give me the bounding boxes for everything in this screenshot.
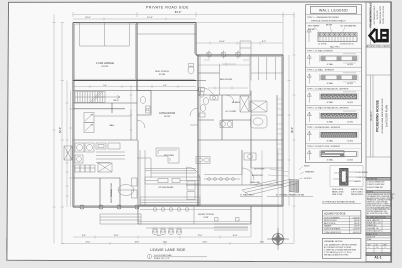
dimension line outermost left xyxy=(53,14,56,243)
toilet fixture mud room xyxy=(188,64,194,75)
svg-text:GENERAL NOTES: GENERAL NOTES xyxy=(324,240,343,243)
svg-text:16R UP: 16R UP xyxy=(113,100,120,102)
drawing title circle xyxy=(147,254,151,258)
exterior wall right xyxy=(282,55,284,206)
svg-text:38'-0": 38'-0" xyxy=(291,127,294,133)
svg-text:BKFST ROOM: BKFST ROOM xyxy=(111,189,113,203)
title strip xyxy=(366,2,395,262)
window symbol wing 1 xyxy=(207,51,212,59)
exterior wall left xyxy=(72,23,74,207)
svg-text:CHECKED: T.M.: CHECKED: T.M. xyxy=(367,228,379,230)
svg-text:NOTES: NOTES xyxy=(367,192,374,194)
svg-text:31'X8': 31'X8' xyxy=(203,217,209,219)
bath2 fixtures right xyxy=(242,153,256,180)
garage door split xyxy=(104,23,106,46)
svg-text:12. TYP. WALL FRAMING DETAIL: 12. TYP. WALL FRAMING DETAIL xyxy=(276,193,305,196)
svg-text:GARAGE: GARAGE xyxy=(324,225,332,228)
north arrow xyxy=(267,228,289,250)
garage right wall xyxy=(136,23,138,91)
iso detail caption xyxy=(267,193,313,196)
svg-text:WRITTEN DIMENSIONS ONLY.: WRITTEN DIMENSIONS ONLY. xyxy=(367,211,388,213)
svg-text:1st FLOOR PLAN: 1st FLOOR PLAN xyxy=(385,105,389,127)
iso framing detail posts xyxy=(290,179,299,192)
svg-text:SURR: STONE: SURR: STONE xyxy=(332,194,342,196)
dimension line wing top xyxy=(196,42,283,45)
svg-text:164': 164' xyxy=(163,241,168,243)
svg-text:3: 3 xyxy=(385,247,386,249)
svg-text:1st FLOOR HEATED: 1st FLOOR HEATED xyxy=(324,216,341,219)
legend type2 sublabels xyxy=(318,43,355,48)
master bath fixtures xyxy=(203,95,249,112)
project block rotated text xyxy=(371,75,389,157)
svg-text:17. WALL SECT.: 17. WALL SECT. xyxy=(240,193,255,196)
front porch outline xyxy=(138,206,251,224)
svg-text:(VERTICAL SIDING) EXTERIOR WAL: (VERTICAL SIDING) EXTERIOR WALLS xyxy=(311,19,346,22)
cabinet stack bottom xyxy=(187,181,195,200)
svg-text:LIVING ROOM: LIVING ROOM xyxy=(159,112,175,115)
svg-text:LEAVIE LANE SIDE: LEAVIE LANE SIDE xyxy=(150,248,186,252)
svg-text:HALL: HALL xyxy=(109,124,115,127)
svg-text:437 LEAVIE LANE, PARKVIEW AL 3: 437 LEAVIE LANE, PARKVIEW AL 36502 xyxy=(381,99,384,134)
svg-text:2x4 @16: 2x4 @16 xyxy=(347,102,353,104)
svg-text:PROJECT: PROJECT xyxy=(371,111,373,121)
svg-text:10'-4": 10'-4" xyxy=(233,235,238,237)
svg-text:1st FLOOR PLAN: 1st FLOOR PLAN xyxy=(154,254,172,257)
general notes box xyxy=(322,239,361,259)
back steps xyxy=(100,214,141,224)
kitchen left wall xyxy=(137,140,139,207)
svg-text:12'-0": 12'-0" xyxy=(198,235,203,237)
svg-text:2x4 STUD @16" OC: 2x4 STUD @16" OC xyxy=(340,43,355,45)
exterior wall inner faces (double line look) xyxy=(74,24,281,206)
svg-text:2x4 @16: 2x4 @16 xyxy=(347,140,353,142)
powder fixtures xyxy=(140,97,150,113)
svg-text:18. FIREPLACE ELEVATION DETAIL: 18. FIREPLACE ELEVATION DETAIL xyxy=(322,200,356,203)
svg-text:440 SF: 440 SF xyxy=(354,226,359,228)
scan edge text bottom left xyxy=(6,238,8,252)
breakfast bar band xyxy=(140,197,200,205)
dimension line left inner xyxy=(66,81,73,208)
dimension line bottom overall xyxy=(62,242,294,245)
right rooms partitions xyxy=(251,115,283,185)
door arcs living xyxy=(137,108,198,128)
svg-text:2 CAR GARAGE: 2 CAR GARAGE xyxy=(96,62,114,65)
svg-text:SHEET TITLE: SHEET TITLE xyxy=(367,234,377,236)
exterior wall top-left block xyxy=(73,22,196,24)
svg-text:M. CLOSET: M. CLOSET xyxy=(226,111,238,113)
laundry appliances xyxy=(64,143,125,172)
svg-text:KITCHEN: KITCHEN xyxy=(164,155,174,157)
left wall cabinets xyxy=(132,178,138,198)
stairs hatch xyxy=(75,92,105,103)
closet under stairs 1 xyxy=(84,113,94,123)
svg-text:1 05/12/21 PERMIT SET: 1 05/12/21 PERMIT SET xyxy=(367,182,385,184)
svg-text:TYPE 1 — SIDING/HDB TEX SIDING: TYPE 1 — SIDING/HDB TEX SIDING xyxy=(307,17,339,19)
svg-text:20'-0": 20'-0" xyxy=(85,17,91,19)
svg-text:1,150 SF: 1,150 SF xyxy=(353,229,360,231)
svg-text:20'X20': 20'X20' xyxy=(101,66,109,68)
wall legend box xyxy=(306,5,362,163)
svg-text:4,835 SF: 4,835 SF xyxy=(353,232,360,234)
svg-text:SHT: SHT xyxy=(368,244,371,246)
svg-text:18'-6": 18'-6" xyxy=(135,242,140,244)
interior vertical dim string xyxy=(130,85,133,140)
dimension line top segments xyxy=(73,18,196,21)
garage bottom wall xyxy=(73,80,196,82)
logo underline row xyxy=(366,45,391,48)
svg-text:TYPE 4 - 4C WALL - INTERIOR: TYPE 4 - 4C WALL - INTERIOR xyxy=(307,68,334,71)
nook table xyxy=(118,185,134,196)
wing left column rooms xyxy=(196,73,220,120)
group: floor plan xyxy=(53,5,296,245)
svg-text:1/2" GYP BD: 1/2" GYP BD xyxy=(318,43,328,45)
svg-text:A1-1: A1-1 xyxy=(374,256,381,260)
svg-text:8'-0": 8'-0" xyxy=(82,235,86,237)
bedroom bottom wall xyxy=(186,150,283,185)
laundry top wall xyxy=(73,139,137,141)
svg-text:2 06/02/21 CLIENT REV: 2 06/02/21 CLIENT REV xyxy=(367,184,385,186)
window symbol wing 2 xyxy=(221,51,226,59)
powder room walls top xyxy=(137,91,151,141)
hall door arc bottom xyxy=(187,167,201,181)
svg-text:FIREBOX 36": FIREBOX 36" xyxy=(356,177,366,179)
svg-text:1: 1 xyxy=(369,247,370,249)
svg-text:2x4 @16: 2x4 @16 xyxy=(347,64,353,66)
company text rotated xyxy=(369,2,386,27)
legend type2 callouts xyxy=(308,24,357,32)
svg-text:MUD PORCH: MUD PORCH xyxy=(155,71,169,73)
dimension line top overall xyxy=(73,12,294,17)
svg-text:WALL LEGEND: WALL LEGEND xyxy=(319,9,348,13)
extension lines right rooms down xyxy=(262,150,278,244)
mud porch overhang line xyxy=(137,33,196,35)
svg-text:ROOM: ROOM xyxy=(159,74,166,76)
spine wall center xyxy=(197,55,199,206)
svg-text:4237 RAINBOW DRIVE: 4237 RAINBOW DRIVE xyxy=(373,5,376,25)
svg-text:9'-0": 9'-0" xyxy=(103,85,107,87)
logo black xyxy=(370,29,389,43)
svg-text:12'-6": 12'-6" xyxy=(114,235,119,237)
svg-text:TYPE 8 - POCKET DOOR - INTER: TYPE 8 - POCKET DOOR - INTERIOR xyxy=(307,146,340,148)
svg-text:385 SF: 385 SF xyxy=(354,223,359,225)
svg-text:19'-6": 19'-6" xyxy=(260,242,265,244)
exterior wall wing top xyxy=(196,54,283,56)
vanity bottom xyxy=(196,157,210,164)
notes paragraph xyxy=(366,191,391,193)
svg-text:410 SF: 410 SF xyxy=(354,220,359,222)
info table xyxy=(366,216,391,219)
dimension line bottom inner xyxy=(73,236,251,239)
legend entries types 3-8 xyxy=(306,49,362,162)
svg-text:PICKERING HOUSE: PICKERING HOUSE xyxy=(376,99,380,132)
svg-text:5'-4": 5'-4" xyxy=(163,85,167,87)
svg-text:TYPE 7 - SOUND/SOUND - INTER: TYPE 7 - SOUND/SOUND - INTERIOR xyxy=(307,127,341,129)
second caption left xyxy=(240,193,262,196)
svg-text:FRONT PORCH: FRONT PORCH xyxy=(324,220,337,222)
svg-text:BACK PORCH: BACK PORCH xyxy=(324,222,336,225)
svg-text:2x4 @16: 2x4 @16 xyxy=(347,160,353,162)
garage inner apron rect xyxy=(80,23,130,46)
pantry walls xyxy=(73,178,120,207)
svg-text:9'-2": 9'-2" xyxy=(262,41,267,43)
laundry lower cabinets xyxy=(75,163,112,172)
right wall inner xyxy=(276,95,278,185)
svg-text:2x6 STUD: 2x6 STUD xyxy=(304,178,312,180)
closet under stairs 2 xyxy=(84,123,94,133)
svg-text:16'X18': 16'X18' xyxy=(164,116,171,118)
dimension line left overall xyxy=(61,23,65,244)
svg-text:PER MFR SPECS: PER MFR SPECS xyxy=(351,194,363,196)
svg-text:14'-0": 14'-0" xyxy=(157,235,162,237)
exterior wall bottom xyxy=(73,206,283,207)
exterior wall mud room right upper xyxy=(195,23,197,55)
svg-text:52'-0": 52'-0" xyxy=(59,127,62,133)
hall closet walls xyxy=(94,109,131,140)
kitchen counter lines xyxy=(145,169,196,174)
svg-text:FRONT PORCH: FRONT PORCH xyxy=(198,214,214,216)
sheet number block xyxy=(366,243,391,252)
svg-text:10'-6": 10'-6" xyxy=(219,41,225,43)
svg-text:12: 12 xyxy=(377,247,379,249)
svg-text:SCALE: 1/4" = 1'-0": SCALE: 1/4" = 1'-0" xyxy=(154,257,170,260)
iso leader lines xyxy=(268,166,304,179)
wing closet partitions xyxy=(240,41,283,81)
svg-text:TYPE 3 - 4C WALL INTERIOR: TYPE 3 - 4C WALL INTERIOR xyxy=(307,49,333,52)
kitchen island xyxy=(145,177,200,184)
dim texts bottom row xyxy=(82,235,265,243)
svg-text:KITCHEN ISLAND: KITCHEN ISLAND xyxy=(159,186,175,189)
wing inner dim marks xyxy=(204,60,249,66)
dimension line right inner xyxy=(288,55,291,206)
dimension line right outer xyxy=(293,14,296,243)
porch columns xyxy=(146,228,248,235)
legend type2 bar xyxy=(318,33,357,42)
hall bottom wall xyxy=(73,103,137,113)
extension lines right to bottom dims xyxy=(251,206,283,244)
svg-text:FRAMEWORKS LLC: FRAMEWORKS LLC xyxy=(369,2,373,27)
corridor wall below garage xyxy=(73,90,198,92)
spine wall double xyxy=(199,55,201,206)
fireplace caption xyxy=(322,200,361,203)
drawing title underline xyxy=(153,256,207,258)
interior dim string right of spine xyxy=(208,87,248,90)
porch interior columns xyxy=(215,218,240,222)
section divider xyxy=(366,74,391,76)
porch left partition xyxy=(193,206,195,224)
svg-text:BE REPRODUCED WITHOUT WRITTEN: BE REPRODUCED WITHOUT WRITTEN xyxy=(367,198,394,200)
svg-text:22'-0": 22'-0" xyxy=(86,242,91,244)
square footage table xyxy=(322,211,361,234)
back porch columns xyxy=(80,205,139,209)
svg-text:REVISIONS: REVISIONS xyxy=(367,179,378,181)
iso detail labels xyxy=(250,166,315,185)
closet rod xyxy=(204,175,242,186)
wing room partitions xyxy=(201,55,251,95)
breakfast bar stools xyxy=(153,208,189,212)
svg-text:M. BATH: M. BATH xyxy=(232,101,241,104)
svg-text:OF: OF xyxy=(376,244,378,246)
svg-text:PARKVIEW, AL 36502: PARKVIEW, AL 36502 xyxy=(379,6,382,24)
legend title box xyxy=(311,6,357,13)
svg-text:TYPE 6 - 4C WALL W/ INSULATI: TYPE 6 - 4C WALL W/ INSULATION - INTERIO… xyxy=(307,107,349,110)
master bath walls xyxy=(198,91,283,169)
closet double sinks xyxy=(220,121,233,128)
svg-text:TOTAL UNDER ROOF: TOTAL UNDER ROOF xyxy=(324,231,341,234)
hall bath tub xyxy=(250,101,267,128)
stair break line xyxy=(90,92,102,103)
kitchen left stub wall xyxy=(137,150,151,205)
svg-text:2nd FLOOR HEATED: 2nd FLOOR HEATED xyxy=(324,228,341,231)
svg-text:2x4 @16: 2x4 @16 xyxy=(347,83,353,85)
svg-text:2x4 @16: 2x4 @16 xyxy=(347,121,353,123)
svg-text:SIDING: SIDING xyxy=(304,166,310,168)
svg-text:BED ROOM: BED ROOM xyxy=(220,79,232,81)
window symbol wing 3 xyxy=(236,51,241,59)
sofa xyxy=(156,148,179,163)
wing left fixtures xyxy=(199,88,206,118)
svg-text:24'-0": 24'-0" xyxy=(203,242,208,244)
svg-text:PHONE 251-555-0134: PHONE 251-555-0134 xyxy=(383,6,385,24)
back porch line xyxy=(73,206,138,208)
svg-text:2,450 SF: 2,450 SF xyxy=(353,217,360,219)
right closet shelving rungs xyxy=(278,99,284,154)
svg-text:PRIVATE ROAD SIDE: PRIVATE ROAD SIDE xyxy=(146,5,189,9)
svg-text:TYPE 5 - 4C WALL W/ INSULATI: TYPE 5 - 4C WALL W/ INSULATION - INTERIO… xyxy=(307,88,349,91)
revisions header xyxy=(366,177,391,180)
dimension row below garage xyxy=(73,85,196,88)
svg-text:STONE VENEER: STONE VENEER xyxy=(355,172,368,174)
wing dim line inner xyxy=(198,64,250,67)
iso ground lines xyxy=(242,180,297,196)
svg-text:84'-0": 84'-0" xyxy=(175,10,182,14)
svg-text:SQUARE FOOTAGE: SQUARE FOOTAGE xyxy=(324,213,346,216)
svg-text:ARCHITECTURE + DESIGN: ARCHITECTURE + DESIGN xyxy=(366,45,390,48)
fireplace detail xyxy=(330,166,369,187)
extension line right upper xyxy=(196,14,283,55)
fireplace spec table xyxy=(332,188,364,196)
porch steps right xyxy=(214,224,248,230)
svg-text:12'-4": 12'-4" xyxy=(147,17,153,19)
svg-text:CLR TO COMB 2": CLR TO COMB 2" xyxy=(351,192,364,194)
stair arrow xyxy=(95,96,120,99)
svg-text:SUITE 200: SUITE 200 xyxy=(377,11,379,20)
